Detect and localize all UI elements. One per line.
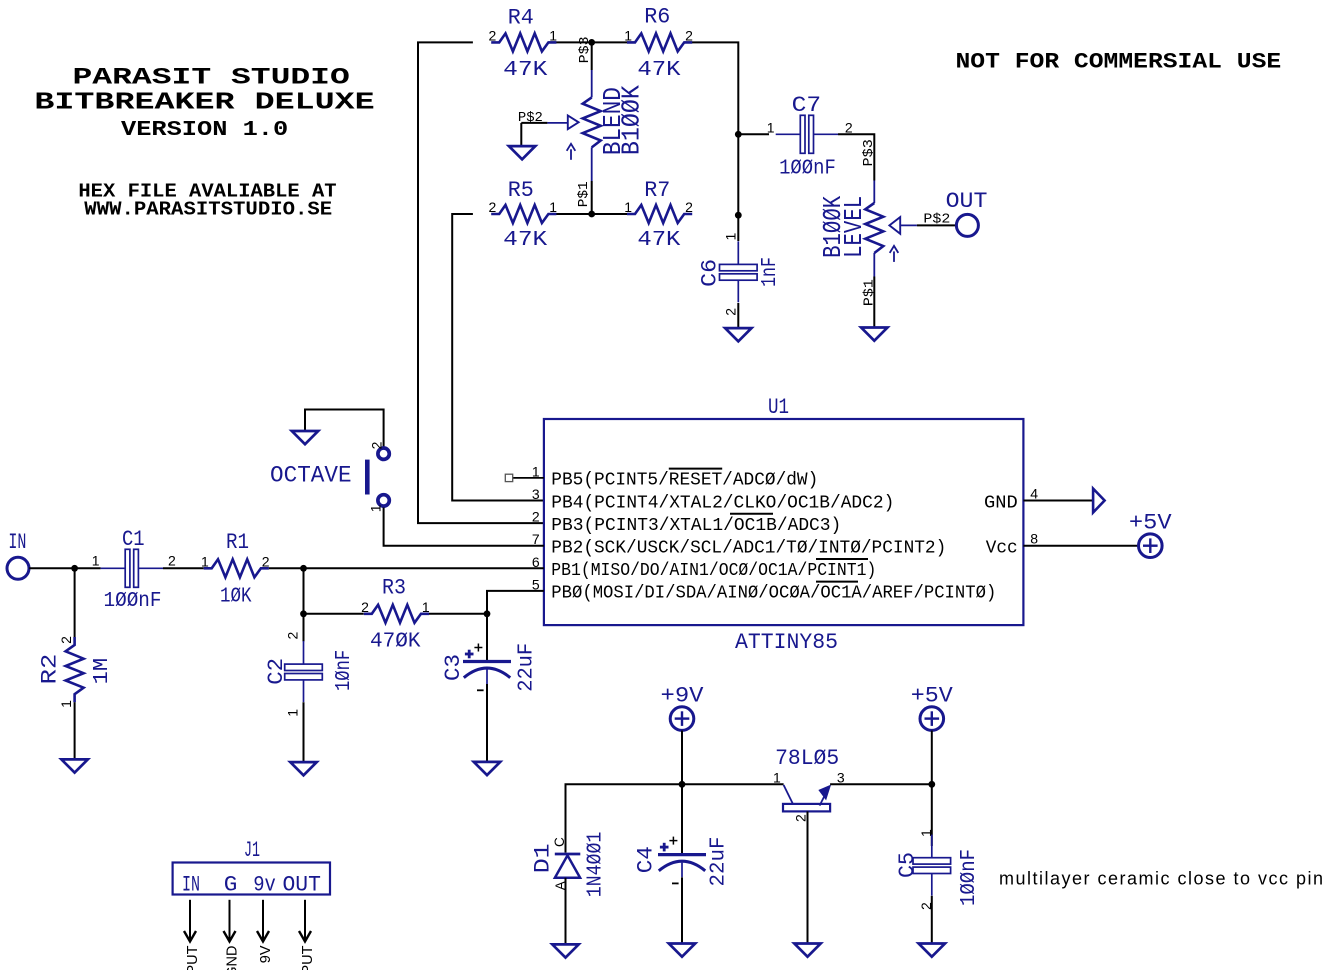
svg-text:C3: C3 bbox=[440, 654, 466, 681]
svg-text:3: 3 bbox=[837, 769, 845, 785]
svg-text:1ØK: 1ØK bbox=[220, 586, 252, 609]
svg-text:2: 2 bbox=[845, 119, 853, 135]
svg-text:+5V: +5V bbox=[1129, 511, 1173, 536]
svg-text:WWW.PARASITSTUDIO.SE: WWW.PARASITSTUDIO.SE bbox=[84, 198, 332, 220]
svg-text:2: 2 bbox=[58, 636, 74, 644]
svg-text:INPUT: INPUT bbox=[185, 945, 201, 970]
svg-text:9V: 9V bbox=[258, 945, 274, 963]
svg-text:P$2: P$2 bbox=[518, 111, 543, 126]
svg-text:R5: R5 bbox=[508, 177, 534, 203]
svg-text:2: 2 bbox=[685, 27, 693, 43]
svg-text:PB4(PCINT4/XTAL2/CLKO/OC1B/ADC: PB4(PCINT4/XTAL2/CLKO/OC1B/ADC2) bbox=[551, 493, 894, 513]
svg-text:2: 2 bbox=[368, 441, 384, 449]
svg-text:1ØØnF: 1ØØnF bbox=[779, 157, 836, 180]
svg-text:1ØØnF: 1ØØnF bbox=[958, 849, 981, 906]
svg-text:C1: C1 bbox=[122, 526, 145, 552]
svg-text:47K: 47K bbox=[503, 229, 547, 252]
svg-text:PARASIT STUDIO: PARASIT STUDIO bbox=[73, 66, 350, 92]
svg-text:8: 8 bbox=[1030, 531, 1038, 547]
svg-text:22uF: 22uF bbox=[516, 643, 539, 692]
svg-text:2: 2 bbox=[361, 599, 369, 615]
svg-text:PB1(MISO/DO/AIN1/OCØ/OC1A/PCIN: PB1(MISO/DO/AIN1/OCØ/OC1A/PCINT1) bbox=[551, 561, 876, 581]
svg-text:2: 2 bbox=[489, 199, 497, 215]
svg-text:PB3(PCINT3/XTAL1/OC1B/ADC3): PB3(PCINT3/XTAL1/OC1B/ADC3) bbox=[551, 516, 841, 536]
svg-text:P$1: P$1 bbox=[577, 181, 592, 207]
svg-text:PBØ(MOSI/DI/SDA/AINØ/OCØA/OC1A: PBØ(MOSI/DI/SDA/AINØ/OCØA/OC1A/AREF/PCIN… bbox=[551, 584, 996, 604]
svg-text:1: 1 bbox=[624, 27, 632, 43]
svg-text:+9V: +9V bbox=[661, 683, 705, 708]
svg-text:R7: R7 bbox=[644, 177, 670, 203]
svg-text:1: 1 bbox=[549, 199, 557, 215]
svg-text:R6: R6 bbox=[644, 4, 670, 30]
svg-text:9v: 9v bbox=[253, 871, 276, 897]
svg-text:Vcc: Vcc bbox=[986, 539, 1018, 559]
svg-text:G: G bbox=[224, 871, 238, 897]
svg-text:OUT: OUT bbox=[283, 871, 321, 897]
svg-text:GND: GND bbox=[984, 493, 1018, 513]
svg-text:C7: C7 bbox=[792, 92, 822, 118]
svg-text:47K: 47K bbox=[503, 59, 548, 82]
svg-text:R2: R2 bbox=[37, 654, 63, 685]
svg-text:2: 2 bbox=[793, 814, 809, 822]
svg-text:78LØ5: 78LØ5 bbox=[775, 745, 839, 771]
svg-text:1: 1 bbox=[201, 553, 209, 569]
svg-text:P$3: P$3 bbox=[578, 36, 593, 63]
svg-text:3: 3 bbox=[532, 486, 540, 502]
svg-text:2: 2 bbox=[532, 509, 540, 525]
svg-text:C: C bbox=[552, 837, 567, 847]
svg-text:multilayer ceramic close to vc: multilayer ceramic close to vcc pin bbox=[999, 869, 1323, 889]
svg-text:1: 1 bbox=[723, 233, 739, 241]
svg-text:1: 1 bbox=[918, 829, 934, 837]
svg-text:C2: C2 bbox=[263, 658, 289, 685]
svg-text:U1: U1 bbox=[768, 394, 789, 420]
svg-text:1: 1 bbox=[58, 700, 74, 708]
svg-text:C4: C4 bbox=[633, 846, 659, 873]
svg-text:1M: 1M bbox=[91, 658, 114, 685]
svg-text:1ØnF: 1ØnF bbox=[333, 650, 356, 691]
svg-text:4: 4 bbox=[1030, 486, 1038, 502]
svg-text:R4: R4 bbox=[508, 5, 534, 31]
svg-text:2: 2 bbox=[284, 632, 300, 640]
svg-text:R1: R1 bbox=[226, 529, 249, 555]
svg-text:IN: IN bbox=[182, 871, 200, 897]
svg-text:VERSION 1.0: VERSION 1.0 bbox=[121, 118, 288, 142]
svg-text:1: 1 bbox=[549, 27, 557, 43]
svg-text:NOT FOR COMMERSIAL USE: NOT FOR COMMERSIAL USE bbox=[956, 50, 1282, 75]
svg-text:BITBREAKER DELUXE: BITBREAKER DELUXE bbox=[34, 90, 374, 117]
svg-text:22uF: 22uF bbox=[708, 837, 731, 887]
svg-text:1: 1 bbox=[767, 119, 775, 135]
svg-text:1: 1 bbox=[422, 599, 430, 615]
svg-text:R3: R3 bbox=[382, 575, 406, 601]
svg-text:C5: C5 bbox=[894, 852, 920, 878]
svg-text:1: 1 bbox=[368, 504, 384, 512]
svg-text:1nF: 1nF bbox=[759, 257, 782, 287]
svg-text:1: 1 bbox=[624, 199, 632, 215]
svg-text:PB2(SCK/USCK/SCL/ADC1/TØ/INTØ/: PB2(SCK/USCK/SCL/ADC1/TØ/INTØ/PCINT2) bbox=[551, 539, 946, 559]
svg-text:1ØØnF: 1ØØnF bbox=[104, 590, 162, 613]
svg-text:B1ØØK: B1ØØK bbox=[617, 85, 647, 155]
svg-text:P$3: P$3 bbox=[862, 139, 877, 166]
svg-text:A: A bbox=[553, 881, 568, 890]
svg-text:ATTINY85: ATTINY85 bbox=[735, 629, 838, 655]
svg-text:PB5(PCINT5/RESET/ADCØ/dW): PB5(PCINT5/RESET/ADCØ/dW) bbox=[551, 471, 818, 491]
svg-text:2: 2 bbox=[685, 199, 693, 215]
svg-text:47K: 47K bbox=[637, 229, 680, 252]
svg-text:+5V: +5V bbox=[911, 683, 954, 708]
svg-text:2: 2 bbox=[262, 553, 270, 569]
svg-text:C6: C6 bbox=[696, 259, 722, 287]
svg-text:1: 1 bbox=[92, 552, 100, 568]
svg-text:IN: IN bbox=[8, 529, 26, 555]
svg-text:OUTPUT: OUTPUT bbox=[300, 945, 316, 970]
svg-text:P$1: P$1 bbox=[862, 279, 877, 306]
svg-text:LEVEL: LEVEL bbox=[839, 196, 869, 258]
svg-text:1: 1 bbox=[773, 769, 781, 785]
svg-text:P$2: P$2 bbox=[923, 213, 950, 228]
svg-text:2: 2 bbox=[723, 308, 739, 316]
svg-text:1: 1 bbox=[284, 709, 300, 717]
svg-text:47ØK: 47ØK bbox=[370, 631, 421, 654]
svg-text:OUT: OUT bbox=[946, 188, 988, 214]
svg-text:J1: J1 bbox=[244, 837, 260, 863]
svg-text:1N4ØØ1: 1N4ØØ1 bbox=[584, 832, 607, 898]
svg-text:2: 2 bbox=[489, 27, 497, 43]
svg-text:47K: 47K bbox=[637, 59, 681, 82]
svg-text:GND: GND bbox=[225, 946, 241, 970]
svg-text:2: 2 bbox=[168, 552, 176, 568]
svg-text:OCTAVE: OCTAVE bbox=[270, 463, 352, 489]
